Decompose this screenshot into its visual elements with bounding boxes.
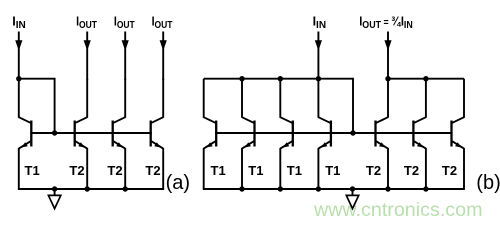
wire diode connection jog (a): [19, 79, 55, 133]
svg-text:(a): (a): [166, 172, 190, 194]
transistor T2 first (a): [75, 79, 88, 189]
svg-text:T2: T2: [69, 163, 84, 178]
svg-text:IOUT: IOUT: [152, 15, 173, 30]
wire I_OUT 1 line with arrow (a): [86, 32, 88, 81]
node T1 emitter junction 4 (b): [316, 186, 321, 191]
node I_IN junction (b): [316, 76, 321, 81]
svg-text:T2: T2: [366, 163, 381, 178]
wire base rail (b): [215, 132, 453, 134]
svg-text:T1: T1: [248, 163, 263, 178]
transistor T1 fourth (b): [318, 79, 331, 189]
svg-text:T1: T1: [325, 163, 340, 178]
node T1 emitter junction 2 (b): [239, 186, 244, 191]
svg-text:IIN: IIN: [313, 15, 326, 31]
ground symbol (b): [346, 188, 358, 209]
wire output collector rail (b): [388, 78, 464, 80]
label I_IN (a): [12, 15, 25, 31]
transistor T2 second (b): [413, 79, 426, 189]
wire bottom emitter rail (b): [203, 188, 465, 190]
wire base rail (a): [30, 132, 152, 134]
node I_OUT junction (b): [385, 76, 390, 81]
wire I_IN input line with arrow (a): [18, 32, 20, 81]
svg-text:T2: T2: [107, 163, 122, 178]
svg-text:T2: T2: [404, 163, 419, 178]
svg-text:IOUT: IOUT: [76, 15, 97, 30]
node T2 emitter junction 2 (a): [123, 186, 128, 191]
ground symbol (a): [48, 188, 60, 209]
node junction I_IN / jog (a): [16, 76, 21, 81]
label I_OUT 1 (a): [76, 15, 97, 30]
wire I_OUT 3 line with arrow (a): [162, 32, 164, 81]
node T1 collector junction 3 (b): [278, 76, 283, 81]
label I_IN (b): [313, 15, 326, 31]
transistor T1 first (b): [204, 79, 217, 189]
svg-text:IOUT: IOUT: [114, 15, 135, 30]
label I_OUT 2 (a): [114, 15, 135, 30]
node base rail junction (b): [350, 130, 355, 135]
transistor T1 third (b): [280, 79, 293, 189]
node junction jog / base rail (a): [52, 130, 57, 135]
svg-text:T2: T2: [145, 163, 160, 178]
node T1 collector junction 2 (b): [239, 76, 244, 81]
node T2 emitter junction 1 (b): [385, 186, 390, 191]
transistor T2 first (b): [376, 79, 389, 189]
svg-text:IOUT = ¾IIN: IOUT = ¾IIN: [359, 14, 413, 31]
wire bottom emitter rail (a): [18, 188, 164, 190]
label I_OUT 3 (a): [152, 15, 173, 30]
svg-text:T1: T1: [211, 163, 226, 178]
node ground junction (a): [52, 186, 57, 191]
svg-text:T1: T1: [25, 163, 40, 178]
node T2 emitter junction 2 (b): [423, 186, 428, 191]
svg-text:T1: T1: [287, 163, 302, 178]
wire I_IN input line with arrow (b): [317, 32, 319, 81]
transistor T2 second (a): [113, 79, 126, 189]
node ground junction (b): [350, 186, 355, 191]
wire I_OUT line with arrow (b): [387, 32, 389, 81]
label I_OUT = 3/4 I_IN (b): [359, 14, 413, 31]
transistor T2 third (a): [151, 79, 164, 189]
svg-text:(b): (b): [476, 172, 500, 194]
svg-text:T2: T2: [442, 163, 457, 178]
transistor T1 (a): [19, 79, 32, 189]
svg-text:IIN: IIN: [12, 15, 25, 31]
transistor T1 second (b): [242, 79, 255, 189]
node T2 emitter junction 1 (a): [85, 186, 90, 191]
transistor T2 third (b): [452, 79, 465, 189]
node T1 emitter junction 3 (b): [278, 186, 283, 191]
wire input collector rail with diode connection (b): [204, 79, 353, 133]
svg-text:www.cntronics.com: www.cntronics.com: [313, 199, 482, 221]
wire I_OUT 2 line with arrow (a): [124, 32, 126, 81]
node T2 collector junction (b): [423, 76, 428, 81]
